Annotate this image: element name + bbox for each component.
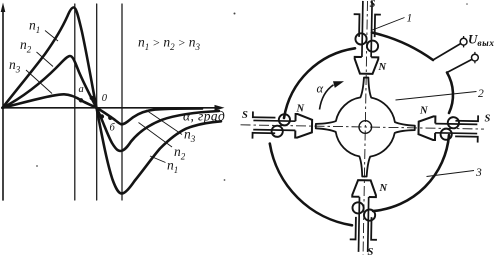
stator ring arc bottom-right bbox=[373, 135, 449, 211]
horizontal dash-dot centerline bbox=[241, 125, 484, 129]
stator ring arc right upper bbox=[447, 73, 453, 114]
rotor shaft hole bbox=[359, 121, 372, 134]
svg-text:1: 1 bbox=[407, 13, 413, 25]
leader n3 lower bbox=[146, 110, 182, 135]
alpha rotation arrow bbox=[320, 85, 334, 110]
svg-text:2: 2 bbox=[478, 88, 484, 100]
stator ring arc bottom-left bbox=[270, 144, 352, 226]
leader to label 1 (magnet winding) bbox=[371, 18, 405, 31]
leader n1 upper bbox=[45, 31, 58, 42]
terminal 1 circle bbox=[460, 38, 467, 45]
svg-text:S: S bbox=[242, 110, 248, 121]
bottom magnet coil turn 1 bbox=[364, 209, 375, 220]
leader to label 2 (rotor) bbox=[396, 92, 477, 101]
top magnet coil turn 1 bbox=[355, 33, 366, 44]
stator ring arc top-left bbox=[284, 48, 355, 118]
leader to label 3 (stator ring) bbox=[427, 171, 475, 177]
point a dot on n3 bbox=[79, 98, 83, 102]
top magnet clamp bbox=[353, 14, 359, 37]
rotor 4-lobe core bbox=[315, 77, 416, 178]
svg-text:S: S bbox=[368, 247, 374, 257]
guide line at n1 peak bbox=[74, 4, 76, 200]
bottom magnet core rod bbox=[367, 197, 370, 252]
stator ring arc top-right bbox=[372, 33, 433, 61]
leader n2 upper bbox=[37, 52, 54, 67]
curve n1 bbox=[3, 7, 222, 193]
lead wire to terminal 1 bbox=[433, 44, 461, 60]
leader n1 lower bbox=[150, 156, 166, 163]
left magnet clamp bbox=[252, 133, 275, 139]
svg-text:N: N bbox=[296, 104, 305, 115]
svg-text:3: 3 bbox=[475, 167, 482, 179]
horizontal axis arrow bbox=[215, 105, 225, 111]
svg-text:S: S bbox=[370, 0, 376, 10]
bottom magnet coil turn 2 bbox=[352, 202, 363, 213]
svg-text:α, град: α, град bbox=[183, 109, 225, 124]
scan speck bbox=[36, 165, 38, 167]
right magnet coil turn 1 bbox=[448, 117, 459, 128]
vertical axis arrow bbox=[1, 3, 6, 13]
top magnet core rod bbox=[361, 1, 364, 57]
left magnet coil turn 2 bbox=[279, 114, 290, 125]
top magnet coil turn 2 bbox=[367, 40, 378, 51]
svg-text:S: S bbox=[485, 114, 491, 125]
top magnet pole shoe bbox=[353, 1, 381, 74]
curve n2 bbox=[3, 56, 220, 151]
leader n3 upper bbox=[26, 70, 52, 94]
scan speck bbox=[466, 3, 468, 5]
scan speck bbox=[234, 13, 236, 15]
lead wire to terminal 2 bbox=[447, 59, 472, 72]
left magnet core rod bbox=[253, 129, 295, 132]
leader n2 lower bbox=[139, 123, 173, 148]
left magnet coil turn 1 bbox=[272, 126, 283, 137]
point b dot on n3 bbox=[108, 116, 112, 120]
terminal 1 tick bbox=[463, 36, 465, 47]
guide line at n1 trough bbox=[121, 4, 123, 200]
bottom magnet pole shoe bbox=[350, 180, 378, 252]
svg-text:0: 0 bbox=[102, 93, 108, 104]
right magnet clamp bbox=[455, 115, 478, 121]
svg-text:N: N bbox=[379, 183, 388, 194]
terminal 2 tick bbox=[474, 52, 476, 63]
guide line at zero crossing bbox=[96, 4, 98, 200]
right magnet core rod bbox=[435, 123, 477, 126]
scan speck bbox=[224, 179, 226, 181]
svg-text:a: a bbox=[79, 84, 84, 95]
right magnet pole shoe bbox=[418, 114, 478, 142]
curve n3 bbox=[3, 94, 203, 124]
point a dot on n2 bbox=[90, 96, 94, 100]
point b dot on n2 bbox=[100, 114, 104, 118]
horizontal axis alpha bbox=[2, 107, 217, 109]
right magnet coil turn 2 bbox=[440, 129, 451, 140]
svg-text:б: б bbox=[110, 123, 116, 134]
svg-text:N: N bbox=[419, 106, 428, 117]
bottom magnet clamp bbox=[371, 217, 377, 240]
svg-text:N: N bbox=[378, 62, 387, 73]
vertical dash-dot centerline bbox=[363, 1, 367, 255]
svg-text:α: α bbox=[317, 82, 324, 96]
left magnet pole shoe bbox=[252, 111, 312, 139]
terminal 2 circle bbox=[472, 54, 479, 61]
vertical axis bbox=[2, 8, 4, 200]
